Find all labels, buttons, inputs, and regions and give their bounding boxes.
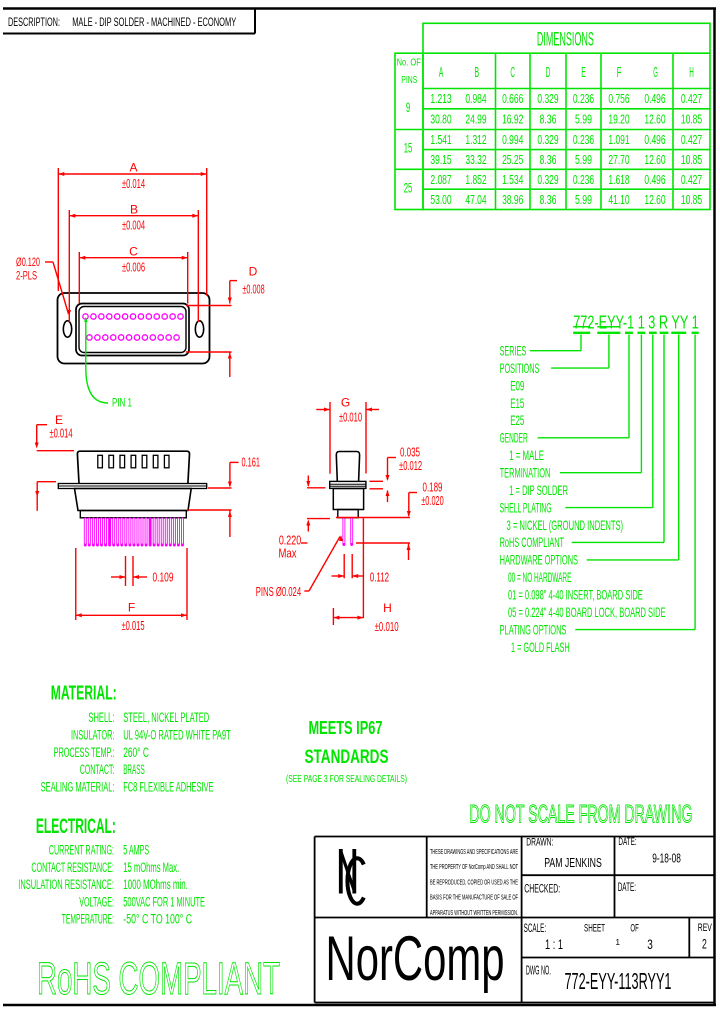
svg-text:39.15: 39.15 <box>430 153 451 167</box>
svg-text:3 = NICKEL (GROUND INDENTS): 3 = NICKEL (GROUND INDENTS) <box>507 517 624 533</box>
svg-text:CONTACT RESISTANCE:: CONTACT RESISTANCE: <box>31 860 114 875</box>
svg-text:SEALING MATERIAL:: SEALING MATERIAL: <box>41 780 115 795</box>
svg-text:772-EYY-1 1 3 R YY 1: 772-EYY-1 1 3 R YY 1 <box>573 311 699 332</box>
svg-text:1 : 1: 1 : 1 <box>545 937 563 952</box>
svg-text:CONTACT:: CONTACT: <box>80 762 115 777</box>
svg-text:2.087: 2.087 <box>430 173 451 187</box>
svg-text:0.496: 0.496 <box>644 92 665 106</box>
svg-text:9: 9 <box>406 99 410 115</box>
svg-text:5 AMPS: 5 AMPS <box>123 843 149 858</box>
svg-text:UL 94V-O RATED WHITE PA9T: UL 94V-O RATED WHITE PA9T <box>123 727 231 742</box>
svg-text:0.329: 0.329 <box>537 92 558 106</box>
svg-text:±0.010: ±0.010 <box>339 410 362 424</box>
svg-text:1000 MOhms min.: 1000 MOhms min. <box>123 877 188 892</box>
svg-text:THE PROPERTY OF NorComp AND SH: THE PROPERTY OF NorComp AND SHALL NOT <box>430 862 518 871</box>
svg-text:15: 15 <box>404 140 413 156</box>
svg-text:DESCRIPTION:: DESCRIPTION: <box>8 17 60 29</box>
svg-text:00 = NO HARDWARE: 00 = NO HARDWARE <box>508 569 571 585</box>
svg-text:D: D <box>546 64 551 81</box>
svg-text:DATE:: DATE: <box>618 882 636 894</box>
svg-text:H: H <box>383 601 392 615</box>
svg-text:16.92: 16.92 <box>502 113 523 127</box>
svg-text:BRASS: BRASS <box>123 762 145 777</box>
svg-text:0.236: 0.236 <box>573 133 594 147</box>
svg-text:1.541: 1.541 <box>430 133 451 147</box>
svg-text:12.60: 12.60 <box>644 193 665 207</box>
svg-text:TERMINATION: TERMINATION <box>500 465 551 481</box>
svg-text:3: 3 <box>647 937 653 952</box>
svg-text:GENDER: GENDER <box>500 430 528 446</box>
svg-text:F: F <box>128 600 135 614</box>
svg-text:15 mOhms Max.: 15 mOhms Max. <box>123 860 179 875</box>
svg-text:2: 2 <box>702 937 707 952</box>
svg-text:12.60: 12.60 <box>644 153 665 167</box>
svg-text:12.60: 12.60 <box>644 113 665 127</box>
svg-text:±0.014: ±0.014 <box>122 177 145 191</box>
svg-text:0.035: 0.035 <box>400 445 420 459</box>
svg-text:POSITIONS: POSITIONS <box>500 360 540 376</box>
svg-text:E09: E09 <box>510 377 524 393</box>
svg-text:0.496: 0.496 <box>644 173 665 187</box>
svg-text:MALE - DIP SOLDER - MACHINED -: MALE - DIP SOLDER - MACHINED - ECONOMY <box>72 17 236 29</box>
svg-text:DRAWN:: DRAWN: <box>526 837 553 849</box>
svg-text:10.85: 10.85 <box>681 193 702 207</box>
svg-text:G: G <box>653 64 658 81</box>
svg-text:8.36: 8.36 <box>540 113 557 127</box>
svg-text:SCALE:: SCALE: <box>524 923 547 935</box>
svg-text:0.427: 0.427 <box>681 173 702 187</box>
svg-text:0.189: 0.189 <box>423 480 443 494</box>
svg-text:PROCESS TEMP.:: PROCESS TEMP.: <box>54 745 115 760</box>
svg-text:1.852: 1.852 <box>465 173 486 187</box>
svg-text:30.80: 30.80 <box>430 113 451 127</box>
svg-text:33.32: 33.32 <box>465 153 486 167</box>
svg-text:10.85: 10.85 <box>681 153 702 167</box>
svg-text:STEEL, NICKEL PLATED: STEEL, NICKEL PLATED <box>123 710 209 725</box>
svg-text:Max: Max <box>279 547 298 561</box>
svg-text:±0.004: ±0.004 <box>122 219 145 233</box>
svg-text:NorComp: NorComp <box>326 924 505 994</box>
svg-text:0.427: 0.427 <box>681 92 702 106</box>
svg-text:G: G <box>341 395 350 409</box>
svg-text:E: E <box>55 413 63 427</box>
svg-text:1.213: 1.213 <box>430 92 451 106</box>
svg-text:BASIS FOR THE MANUFACTURE OF S: BASIS FOR THE MANUFACTURE OF SALE OF <box>430 893 518 902</box>
svg-text:5.99: 5.99 <box>575 113 592 127</box>
svg-text:Ø0.120: Ø0.120 <box>16 255 40 269</box>
svg-text:FC8 FLEXIBLE ADHESIVE: FC8 FLEXIBLE ADHESIVE <box>123 780 213 795</box>
svg-text:5.99: 5.99 <box>575 153 592 167</box>
svg-text:1.534: 1.534 <box>502 173 523 187</box>
svg-text:38.96: 38.96 <box>502 193 523 207</box>
svg-text:0.984: 0.984 <box>465 92 486 106</box>
svg-text:PAM JENKINS: PAM JENKINS <box>544 855 602 870</box>
svg-text:8.36: 8.36 <box>540 193 557 207</box>
svg-text:0.666: 0.666 <box>502 92 523 106</box>
svg-text:1 = DIP SOLDER: 1 = DIP SOLDER <box>509 482 568 498</box>
svg-text:±0.006: ±0.006 <box>122 261 145 275</box>
svg-text:HARDWARE OPTIONS: HARDWARE OPTIONS <box>500 552 578 568</box>
svg-text:OF: OF <box>630 923 639 935</box>
svg-text:E: E <box>581 64 586 81</box>
svg-text:0.756: 0.756 <box>608 92 629 106</box>
svg-text:±0.015: ±0.015 <box>121 619 144 633</box>
svg-text:E25: E25 <box>510 412 524 428</box>
svg-text:INSULATION RESISTANCE:: INSULATION RESISTANCE: <box>18 877 114 892</box>
svg-text:PIN 1: PIN 1 <box>112 396 132 410</box>
svg-text:ELECTRICAL:: ELECTRICAL: <box>36 815 116 838</box>
svg-text:5.99: 5.99 <box>575 193 592 207</box>
svg-text:REV: REV <box>698 922 712 934</box>
svg-text:0.496: 0.496 <box>644 133 665 147</box>
svg-text:1: 1 <box>616 938 621 947</box>
svg-text:0.220: 0.220 <box>279 534 301 548</box>
svg-text:-50° C TO 100° C: -50° C TO 100° C <box>123 912 192 927</box>
svg-text:INSULATOR:: INSULATOR: <box>71 727 115 742</box>
svg-text:SHELL:: SHELL: <box>88 710 114 725</box>
svg-text:24.99: 24.99 <box>465 113 486 127</box>
svg-text:F: F <box>617 64 622 81</box>
svg-text:H: H <box>689 64 694 81</box>
svg-text:0.112: 0.112 <box>370 571 389 585</box>
svg-text:RoHS COMPLIANT: RoHS COMPLIANT <box>37 953 280 1004</box>
svg-text:8.36: 8.36 <box>540 153 557 167</box>
svg-text:0.161: 0.161 <box>242 455 261 469</box>
svg-text:MATERIAL:: MATERIAL: <box>51 683 117 705</box>
svg-text:DO NOT SCALE FROM DRAWING: DO NOT SCALE FROM DRAWING <box>469 801 692 829</box>
svg-text:±0.012: ±0.012 <box>399 459 422 473</box>
svg-text:C: C <box>129 245 138 259</box>
svg-text:STANDARDS: STANDARDS <box>305 746 389 768</box>
svg-text:25.25: 25.25 <box>502 153 523 167</box>
svg-text:DATE:: DATE: <box>618 836 636 848</box>
svg-text:0.329: 0.329 <box>537 173 558 187</box>
svg-text:DWG NO.: DWG NO. <box>526 962 551 977</box>
svg-text:±0.020: ±0.020 <box>421 494 444 508</box>
svg-text:±0.008: ±0.008 <box>242 282 264 296</box>
svg-text:2-PLS: 2-PLS <box>16 269 37 283</box>
svg-text:SHEET: SHEET <box>584 923 605 935</box>
svg-text:MEETS IP67: MEETS IP67 <box>309 717 383 738</box>
svg-text:B: B <box>130 203 138 217</box>
svg-text:CHECKED:: CHECKED: <box>524 884 560 896</box>
svg-text:0.994: 0.994 <box>502 133 523 147</box>
svg-text:PLATING OPTIONS: PLATING OPTIONS <box>500 621 567 637</box>
svg-text:VOLTAGE:: VOLTAGE: <box>79 894 114 909</box>
svg-text:0.236: 0.236 <box>573 173 594 187</box>
svg-text:500VAC FOR 1 MINUTE: 500VAC FOR 1 MINUTE <box>123 894 205 909</box>
svg-text:01 = 0.098" 4-40 INSERT, BOARD: 01 = 0.098" 4-40 INSERT, BOARD SIDE <box>508 587 643 603</box>
svg-text:E15: E15 <box>510 395 524 411</box>
svg-text:DIMENSIONS: DIMENSIONS <box>537 29 594 50</box>
svg-text:19.20: 19.20 <box>608 113 629 127</box>
svg-text:BE REPRODUCED, COPIED OR USED: BE REPRODUCED, COPIED OR USED AS THE <box>430 877 518 886</box>
svg-text:A: A <box>129 161 137 175</box>
svg-text:THESE DRAWINGS AND SPECIFICATI: THESE DRAWINGS AND SPECIFICATIONS ARE <box>430 847 518 856</box>
svg-text:10.85: 10.85 <box>681 113 702 127</box>
svg-text:1 = GOLD FLASH: 1 = GOLD FLASH <box>511 639 570 655</box>
svg-text:C: C <box>510 64 515 81</box>
svg-text:27.70: 27.70 <box>608 153 629 167</box>
svg-text:No. OF: No. OF <box>397 58 421 69</box>
svg-text:±0.014: ±0.014 <box>49 427 72 441</box>
svg-text:0.109: 0.109 <box>153 570 174 584</box>
svg-text:SERIES: SERIES <box>500 343 527 359</box>
svg-text:CURRENT RATING:: CURRENT RATING: <box>49 843 114 858</box>
svg-text:9-18-08: 9-18-08 <box>652 851 681 866</box>
svg-text:D: D <box>249 264 258 278</box>
svg-text:1.312: 1.312 <box>465 133 486 147</box>
svg-text:1.091: 1.091 <box>608 133 629 147</box>
svg-text:APPARATUS WITHOUT WRITTEN PERM: APPARATUS WITHOUT WRITTEN PERMISSION. <box>430 908 518 917</box>
svg-text:PINS Ø0.024: PINS Ø0.024 <box>256 585 301 599</box>
svg-text:1 = MALE: 1 = MALE <box>509 447 544 463</box>
svg-text:41.10: 41.10 <box>608 193 629 207</box>
svg-text:B: B <box>475 64 480 81</box>
svg-text:(SEE PAGE 3 FOR SEALING DETAIL: (SEE PAGE 3 FOR SEALING DETAILS) <box>286 774 407 785</box>
svg-text:53.00: 53.00 <box>430 193 451 207</box>
svg-text:05 = 0.224" 4-40 BOARD LOCK, B: 05 = 0.224" 4-40 BOARD LOCK, BOARD SIDE <box>508 604 666 620</box>
svg-text:1.618: 1.618 <box>608 173 629 187</box>
svg-text:0.329: 0.329 <box>537 133 558 147</box>
svg-text:260° C: 260° C <box>123 745 149 760</box>
svg-text:PINS: PINS <box>401 75 417 86</box>
svg-text:25: 25 <box>404 180 413 196</box>
svg-text:RoHS COMPLIANT: RoHS COMPLIANT <box>500 534 565 550</box>
svg-text:A: A <box>439 64 444 81</box>
svg-text:47.04: 47.04 <box>465 193 486 207</box>
svg-text:0.236: 0.236 <box>573 92 594 106</box>
svg-text:±0.010: ±0.010 <box>375 620 399 634</box>
svg-text:TEMPERATURE:: TEMPERATURE: <box>62 912 114 927</box>
svg-text:SHELL PLATING: SHELL PLATING <box>500 499 552 515</box>
svg-text:0.427: 0.427 <box>681 133 702 147</box>
svg-text:772-EYY-113RYY1: 772-EYY-113RYY1 <box>565 968 672 994</box>
